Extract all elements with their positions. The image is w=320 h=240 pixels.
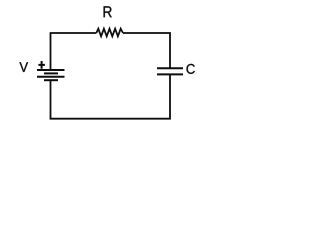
wire top-left: resistor left lead to top-left corner down to battery top plate bbox=[51, 33, 97, 70]
label V bbox=[19, 62, 28, 72]
wire bottom loop: battery bottom to bottom-left corner, bottom wire, up to capacitor bottom plate bbox=[51, 74, 171, 118]
resistor R zigzag bbox=[96, 29, 123, 37]
label C bbox=[187, 64, 195, 74]
label R bbox=[104, 6, 112, 17]
battery V plate 4 (short) bbox=[44, 79, 58, 81]
capacitor C bottom plate bbox=[157, 73, 183, 75]
battery V plate 3 (long) bbox=[37, 76, 65, 78]
battery V plate 2 (short) bbox=[44, 72, 58, 74]
battery V plate 1 (long, +) bbox=[37, 69, 65, 71]
battery plus sign bbox=[38, 61, 45, 69]
wire top-right: resistor right lead to top-right corner down to capacitor top plate bbox=[123, 33, 170, 68]
capacitor C top plate bbox=[157, 67, 183, 69]
